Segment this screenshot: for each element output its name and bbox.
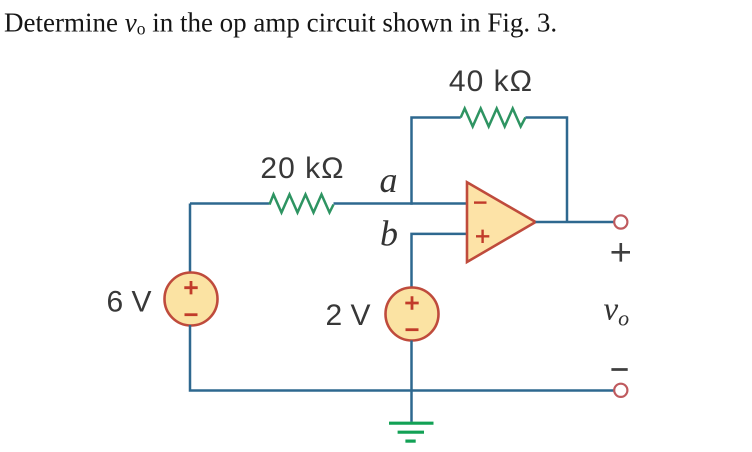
plus sign output polarity — [612, 243, 631, 262]
minus sign output polarity — [611, 368, 627, 371]
wire: op-amp output to terminal — [536, 221, 614, 224]
svg-text:40 kΩ: 40 kΩ — [449, 65, 533, 98]
resistor R1 20 kΩ — [270, 195, 334, 213]
resistor R2 40 kΩ — [461, 109, 526, 127]
wire: 2V bottom vertical through bottom rail to ground — [410, 341, 413, 422]
wire: node a horizontal to op-amp inverting input — [334, 202, 468, 205]
U1 minus (inverting input marker) — [474, 201, 487, 203]
V1 plus sign — [184, 281, 197, 294]
svg-text:a: a — [380, 160, 398, 200]
terminal top output — [614, 215, 627, 228]
wire: feedback loop left (node a vertical up and top-left horizontal) — [412, 118, 461, 205]
svg-text:6 V: 6 V — [106, 286, 151, 319]
wire: left horizontal from 6V to 20k — [190, 202, 270, 205]
ground — [389, 423, 434, 441]
svg-text:20 kΩ: 20 kΩ — [260, 152, 344, 185]
wire: left vertical below 6V source — [190, 325, 614, 391]
terminal bottom output — [614, 384, 627, 397]
V2 plus sign — [405, 296, 418, 309]
wire: node b horizontal to op-amp noninverting input and down to 2V — [412, 234, 468, 288]
voltage source V1 6 V — [165, 273, 218, 326]
op-amp U1 — [467, 182, 536, 262]
svg-text:b: b — [380, 214, 398, 254]
U1 plus (noninverting input marker) — [476, 230, 489, 243]
voltage source V2 2 V — [386, 288, 439, 341]
svg-text:Determine vo in the op amp cir: Determine vo in the op amp circuit shown… — [4, 8, 557, 39]
svg-text:2 V: 2 V — [325, 299, 370, 332]
wire: left vertical above 6V source — [189, 204, 192, 274]
V2 minus sign — [406, 328, 419, 331]
wire: feedback loop right (top horizontal and vertical down to output) — [525, 118, 567, 223]
V1 minus sign — [185, 313, 198, 316]
